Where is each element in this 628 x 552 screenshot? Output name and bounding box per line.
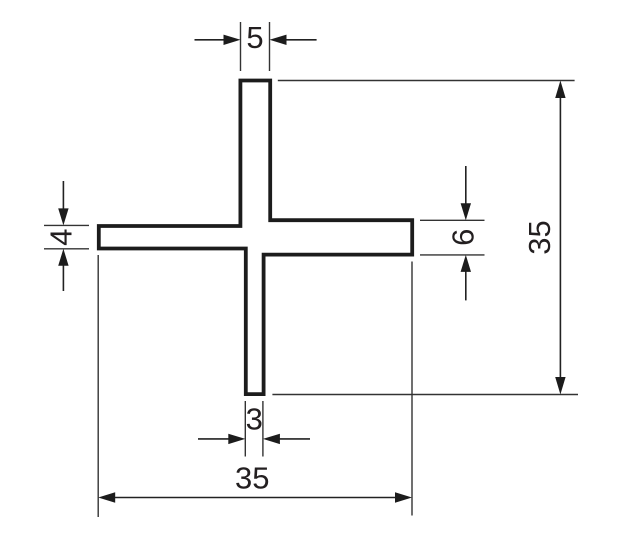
dimension 3: extension line right <box>262 401 264 457</box>
svg-text:6: 6 <box>446 229 481 246</box>
dimension 4: extension line bottom <box>44 248 89 250</box>
dimension 3: left arrowhead <box>228 434 245 444</box>
dimension 3: left arrow line <box>198 438 231 440</box>
dimension 4: upper arrowhead <box>58 208 68 225</box>
dimension 3: extension line left <box>244 401 246 457</box>
svg-text:3: 3 <box>246 402 263 437</box>
dimension 6: lower arrow line <box>465 269 467 300</box>
dimension 4: lower arrow line <box>62 263 64 291</box>
dimension 6: extension line bottom <box>420 254 485 256</box>
dimension 35 bottom: right arrowhead <box>395 492 412 502</box>
dimension 5: left arrow line <box>195 39 227 41</box>
dimension 6: extension line top <box>420 219 485 221</box>
dimension 35 bottom: dimension line <box>110 497 400 499</box>
dimension 4: extension line top <box>44 224 89 226</box>
svg-text:35: 35 <box>235 461 269 496</box>
dimension 35 right: extension line bottom <box>272 394 578 396</box>
dimension 5: extension line right <box>269 22 271 71</box>
dimension 5: extension line left <box>240 22 242 71</box>
svg-text:4: 4 <box>44 229 79 246</box>
dimension 6: upper arrow line <box>465 166 467 206</box>
dimension 4: lower arrowhead <box>58 249 68 266</box>
dimension 35 bottom: extension line left <box>97 255 99 517</box>
dimension 35 right: top arrowhead <box>555 81 565 99</box>
dimension 35 right: extension line top <box>278 80 575 82</box>
dimension 5: right arrowhead <box>270 35 287 45</box>
dimension 35 bottom: extension line right <box>411 262 413 516</box>
cross profile outline <box>99 81 412 395</box>
dimension 5: right arrow line <box>284 39 317 41</box>
dimension 6: lower arrowhead <box>461 255 471 272</box>
dimension 35 right: dimension line <box>559 92 561 383</box>
dimension 5: left arrowhead <box>224 35 241 45</box>
dimension 3: right arrow line <box>278 438 310 440</box>
dimension 35 right: bottom arrowhead <box>555 377 565 395</box>
svg-text:35: 35 <box>522 220 557 254</box>
svg-text:5: 5 <box>246 20 263 55</box>
dimension 6: upper arrowhead <box>461 203 471 220</box>
dimension 4: upper arrow line <box>62 181 64 211</box>
dimension 3: right arrowhead <box>263 434 280 444</box>
dimension 35 bottom: left arrowhead <box>98 492 115 502</box>
